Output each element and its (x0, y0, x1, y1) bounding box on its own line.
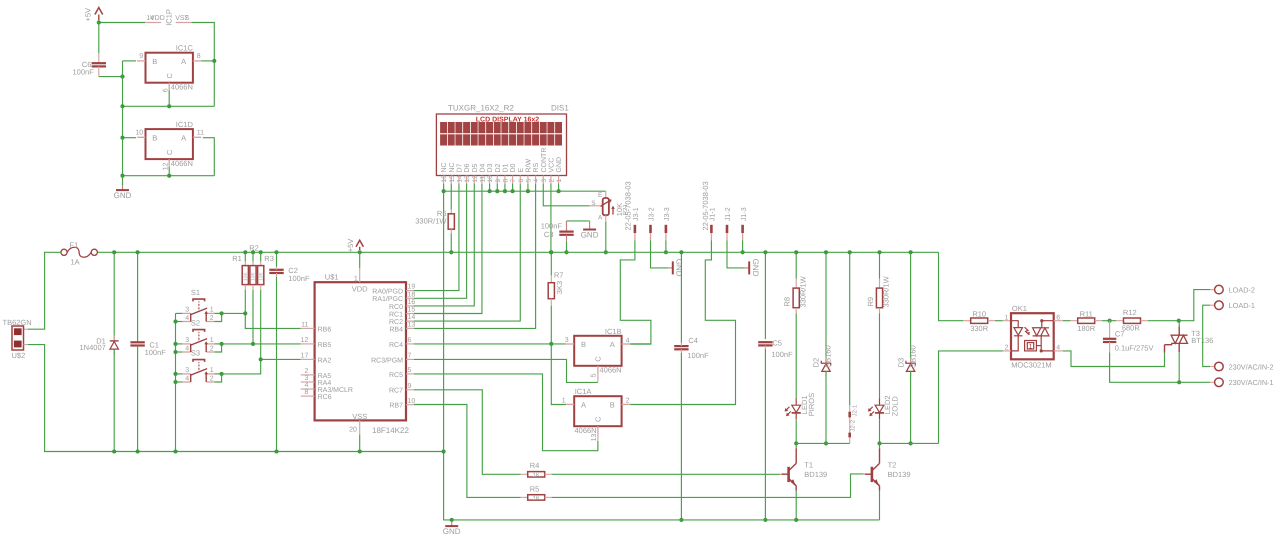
svg-text:9: 9 (408, 383, 412, 390)
junction D1 bottom rail (112, 449, 116, 453)
svg-text:GND: GND (443, 527, 461, 536)
wire RC4 node down to IC1A pin 1 (551, 344, 566, 405)
wire IC1D pin 11 down (203, 138, 214, 176)
svg-text:RB5: RB5 (318, 342, 332, 349)
gate IC1B 4066N (574, 336, 621, 366)
svg-text:TB62GN: TB62GN (3, 318, 32, 327)
wire R6 to +5V rail (450, 233, 452, 252)
U$1 pin 18 RA1/PGC (406, 297, 414, 299)
junction C1 bottom rail (136, 449, 140, 453)
svg-text:U$1: U$1 (325, 273, 339, 282)
svg-text:J1-3: J1-3 (741, 207, 748, 221)
svg-text:2: 2 (549, 179, 556, 183)
svg-text:14: 14 (408, 314, 416, 321)
resistor R1 10K (244, 252, 246, 261)
svg-text:16: 16 (408, 299, 416, 306)
svg-text:12: 12 (301, 337, 309, 344)
U$1 pin 7 RC3/PGM (406, 358, 414, 360)
wire LCD pin 1 to gnd rail (558, 184, 560, 192)
junction VCC rail (549, 250, 553, 254)
svg-text:4: 4 (626, 338, 630, 345)
svg-text:1A: 1A (71, 257, 80, 266)
junction J1-3 rail (741, 250, 745, 254)
U$1 pin 5 RC5 (406, 373, 414, 375)
wire T2 collector rail (880, 442, 939, 444)
svg-text:22-05-7038-03: 22-05-7038-03 (701, 181, 710, 230)
svg-text:J3-2: J3-2 (649, 207, 656, 221)
wire J3-2 to GND (651, 240, 669, 268)
svg-text:RB4: RB4 (389, 326, 403, 333)
svg-text:5: 5 (590, 373, 597, 377)
svg-text:180R: 180R (1077, 324, 1096, 333)
wire VCC column to +5V rail (550, 184, 552, 253)
junction VSS bottom rail (358, 449, 362, 453)
junction C2 bottom rail (274, 449, 278, 453)
wire S2 output to RB5 (222, 343, 301, 345)
svg-text:7: 7 (408, 353, 412, 360)
wire VSS to right vertical (192, 23, 215, 107)
svg-text:18: 18 (408, 291, 416, 298)
wire OK1 pin 2 return to T2 rail (1003, 350, 1011, 352)
svg-text:10K: 10K (243, 271, 249, 281)
junction +5V U$1 (358, 250, 362, 254)
svg-text:2: 2 (304, 368, 308, 375)
svg-text:CONTR: CONTR (541, 148, 548, 173)
junction left rail 1 (120, 104, 124, 108)
svg-text:VCC: VCC (549, 158, 556, 173)
svg-text:T1: T1 (804, 461, 813, 470)
wire TB62GN bottom to bottom rail (24, 344, 29, 346)
svg-text:0.1uF/275V: 0.1uF/275V (1115, 343, 1154, 352)
junction D1 rail (112, 250, 116, 254)
wire OK1 pin 6 to R11 (1054, 320, 1063, 322)
U$1 pin 19 RA0/PGD (406, 290, 414, 292)
svg-text:VDD: VDD (150, 15, 165, 22)
svg-text:330R/1W: 330R/1W (415, 216, 447, 225)
capacitor C3 100nF (566, 221, 568, 232)
svg-text:RA5: RA5 (318, 373, 332, 380)
wire +5V rail (97, 251, 938, 253)
wire T2 collector (879, 443, 881, 448)
svg-text:GND: GND (581, 231, 599, 240)
junction R7/RC4/IC1A (549, 342, 553, 346)
svg-text:100nF: 100nF (145, 348, 167, 357)
junction R1/S1 (243, 311, 247, 315)
svg-text:R7: R7 (554, 270, 564, 279)
svg-text:J1-2: J1-2 (725, 207, 732, 221)
junction trimmer rail (604, 250, 608, 254)
wire LCD GND rail (444, 190, 606, 192)
svg-text:RC5: RC5 (389, 372, 403, 379)
junction pin8/right rail (212, 59, 216, 63)
svg-text:RA4: RA4 (318, 380, 332, 387)
svg-text:GND: GND (556, 157, 563, 173)
svg-text:230V/AC/IN-1: 230V/AC/IN-1 (1229, 378, 1274, 387)
svg-text:J2-1: J2-1 (851, 404, 858, 416)
svg-text:12: 12 (472, 175, 479, 183)
junction pin16 gnd rail (442, 189, 446, 193)
wire T2 emitter to gnd line (879, 491, 881, 520)
svg-text:3: 3 (565, 337, 569, 344)
svg-text:RA0/PGD: RA0/PGD (372, 288, 403, 296)
junction pin5 gnd rail (526, 189, 530, 193)
wire fuse to TB62GN top (28, 252, 61, 329)
power part IC1P pin 14 VDD (145, 22, 161, 24)
U$1 pin 2 RA5 (301, 374, 315, 376)
svg-text:D4: D4 (480, 163, 487, 172)
wire J3-3 to rail (665, 240, 667, 252)
junction R2/S2 (251, 342, 255, 346)
wire RC4 to IC1B pin 3 (414, 343, 566, 345)
wire R10 to OK1 pin 1 (995, 320, 1003, 322)
svg-text:8: 8 (304, 389, 308, 396)
U$1 pin 6 RC4 (406, 343, 414, 345)
svg-text:3: 3 (304, 375, 308, 382)
wire +5V down to C6 (98, 23, 100, 54)
U$1 pin 9 RC7 (406, 389, 414, 391)
svg-text:100nF: 100nF (687, 351, 709, 360)
U$1 pin 11 RB6 (301, 327, 315, 329)
svg-text:D6: D6 (464, 163, 471, 172)
svg-text:13: 13 (408, 322, 416, 329)
wire T2 base stub (864, 473, 865, 475)
svg-text:330R: 330R (970, 324, 989, 333)
svg-text:5: 5 (408, 367, 412, 374)
svg-text:3K3: 3K3 (555, 281, 564, 294)
wire C6 bottom to node (99, 76, 123, 78)
svg-text:E: E (518, 168, 525, 173)
svg-text:R12: R12 (1123, 308, 1137, 317)
svg-text:J2-2: J2-2 (849, 419, 856, 431)
terminal block U$2 TB62GN (12, 326, 24, 350)
wire T1 collector (795, 443, 797, 448)
wire LCD pin 5 to gnd rail (527, 184, 529, 192)
svg-text:1: 1 (210, 307, 214, 314)
wire IC1C pin 8 to right vertical (201, 60, 214, 62)
svg-text:D3: D3 (487, 163, 494, 172)
transistor T1 BD139 (787, 467, 790, 482)
svg-text:9: 9 (139, 53, 143, 60)
power part IC1P pin 7 VSS (176, 22, 192, 24)
LED LED2 ZOLD (879, 398, 881, 405)
svg-text:R11: R11 (1080, 309, 1093, 318)
svg-text:17: 17 (301, 353, 309, 360)
power +5V (top left) (95, 8, 103, 15)
wire R12 to MT2 node (1148, 320, 1179, 322)
capacitor C5 100nF (764, 252, 766, 339)
U$1 pin 17 RA2 (301, 358, 315, 360)
svg-text:A: A (581, 400, 586, 409)
wire J1-2 to GND (727, 240, 745, 268)
gate IC1A 4066N (574, 396, 621, 426)
svg-text:GND: GND (675, 259, 684, 277)
wire IC1C pin 6 down to rail (168, 91, 170, 107)
svg-text:2: 2 (210, 345, 214, 352)
svg-text:IC1P: IC1P (165, 9, 174, 26)
svg-text:16: 16 (441, 175, 448, 183)
LCD pixel blocks row 2 (440, 134, 447, 145)
svg-text:C: C (594, 356, 603, 361)
svg-text:1: 1 (562, 398, 566, 405)
wire +5V to IC1P VDD (98, 20, 100, 23)
wire node to IC1C pin 9 (123, 60, 137, 62)
resistor R11 180R (1070, 320, 1077, 322)
svg-text:12: 12 (162, 162, 169, 170)
svg-text:15: 15 (449, 175, 456, 183)
svg-text:3: 3 (541, 179, 548, 183)
junction common bottom rail (173, 449, 177, 453)
wire LCD pin 8 to gnd rail (504, 184, 506, 192)
wire J3-1 to IC1B pin 4 (620, 240, 651, 344)
svg-text:11: 11 (301, 322, 308, 329)
wire S1 output to RB6 (222, 312, 246, 314)
svg-text:LOAD-2: LOAD-2 (1229, 286, 1255, 295)
wire RC5 to IC1A pin 13 (control) (414, 374, 598, 451)
junction S2 pin3 (173, 342, 177, 346)
svg-text:330R/1W: 330R/1W (798, 275, 807, 307)
wire LCD RS column to MCU (414, 184, 536, 329)
wire pin15 to R6 (450, 184, 452, 210)
svg-text:RC1: RC1 (389, 311, 403, 318)
svg-text:13: 13 (464, 175, 471, 183)
wire S3 output to RA2 (222, 359, 261, 374)
junction +5V node (97, 20, 101, 24)
svg-text:3: 3 (185, 367, 189, 374)
svg-text:B: B (581, 340, 586, 349)
junction R12/T3/LOAD-2 (1177, 319, 1181, 323)
svg-text:18F14K22: 18F14K22 (372, 426, 409, 435)
wire LCD D6 column to MCU (414, 184, 467, 299)
svg-text:D2: D2 (812, 358, 821, 368)
resistor R10 330R (963, 320, 970, 322)
svg-text:9: 9 (495, 179, 502, 183)
junction D2 rail (824, 250, 828, 254)
wire rail under IC1C (123, 105, 215, 107)
svg-text:6: 6 (408, 337, 412, 344)
wire VSS pin 20 (359, 420, 361, 434)
wire LCD D4 column to MCU (414, 184, 482, 314)
svg-text:LOAD-1: LOAD-1 (1229, 301, 1255, 310)
resistor R9 330R/1W (879, 252, 881, 278)
diode D2 SB160 (825, 252, 827, 362)
wire LCD pin 9 to gnd rail (496, 184, 498, 192)
svg-text:GND: GND (751, 259, 760, 277)
svg-text:J3-1: J3-1 (633, 207, 640, 221)
capacitor C4 100nF (680, 252, 682, 343)
svg-text:4: 4 (185, 345, 189, 352)
svg-text:IC1D: IC1D (176, 120, 194, 129)
svg-text:7: 7 (184, 15, 188, 22)
svg-text:R4: R4 (530, 461, 540, 470)
svg-text:RA3/MCLR: RA3/MCLR (318, 386, 353, 394)
resistor R7 3K3 (550, 252, 552, 275)
junction S3 output (220, 372, 224, 376)
svg-text:PIROS: PIROS (807, 393, 816, 416)
svg-text:6: 6 (518, 179, 525, 183)
wire C3 top to GND (567, 220, 590, 222)
svg-text:4: 4 (185, 375, 189, 382)
resistor R8 330R/1W (795, 252, 797, 278)
junction pin7 gnd rail (511, 189, 515, 193)
transistor T2 BD139 (871, 467, 874, 482)
svg-text:C5: C5 (772, 339, 782, 348)
wire gnd rail to trimmer E (605, 191, 607, 198)
junction R11/R12/C7 (1108, 319, 1112, 323)
wire J1-1 to IC1A pin 2 (630, 240, 735, 404)
connector pin J3-2 (649, 225, 652, 233)
wire LCD pin 10 to gnd rail (489, 184, 491, 192)
junction R8 rail (794, 250, 798, 254)
junction pin10 gnd rail (488, 189, 492, 193)
svg-text:1: 1 (1029, 344, 1033, 351)
wire trimmer A to rail (605, 215, 607, 221)
svg-text:S3: S3 (191, 349, 200, 358)
svg-text:A: A (598, 215, 603, 222)
svg-text:NC: NC (449, 162, 456, 172)
wire J1-3 to rail (742, 240, 744, 252)
svg-text:RC6: RC6 (318, 394, 332, 401)
svg-text:4066N: 4066N (171, 83, 193, 92)
svg-text:+5V: +5V (83, 8, 92, 22)
capacitor C1 100nF (137, 252, 139, 342)
svg-text:4066N: 4066N (171, 159, 193, 168)
diode D3 SB160 (910, 252, 912, 362)
junction J2 rail (848, 250, 852, 254)
junction J3-3 rail (664, 250, 668, 254)
svg-text:1K: 1K (533, 472, 540, 479)
ground GND (J1-2) (745, 267, 750, 269)
ground GND (C3) (589, 225, 591, 230)
wire MT1 to IN-1 (1179, 381, 1210, 383)
svg-text:S2: S2 (191, 319, 200, 328)
connector pin J1-3 (741, 225, 744, 233)
wire LED2 to T2 collector rail (879, 419, 881, 443)
wires S2 left pins (176, 343, 183, 345)
svg-text:GND: GND (114, 191, 132, 200)
svg-text:IC1A: IC1A (575, 387, 592, 396)
terminal LOAD-2 (1210, 289, 1214, 291)
svg-text:A: A (181, 133, 186, 142)
svg-text:3: 3 (185, 337, 189, 344)
wire LCD D7 column to MCU (414, 184, 459, 291)
svg-text:14: 14 (457, 175, 464, 183)
wire switch common vertical (175, 313, 177, 451)
svg-text:1: 1 (210, 337, 214, 344)
svg-text:2: 2 (210, 315, 214, 322)
resistor R5 1K (521, 496, 528, 498)
junction C1 rail (136, 250, 140, 254)
svg-text:8: 8 (503, 179, 510, 183)
resistor R3 10K (260, 252, 262, 261)
svg-text:ZOLD: ZOLD (890, 396, 899, 417)
U$1 pin 8 RC6 (301, 395, 315, 397)
svg-text:20: 20 (349, 426, 357, 433)
wire R9 to LED2 (879, 313, 881, 398)
ground GND (top-left) (122, 186, 124, 191)
svg-text:R9: R9 (866, 297, 875, 307)
junction R6 rail (449, 250, 453, 254)
svg-text:R3: R3 (264, 254, 274, 263)
svg-text:DIS1: DIS1 (551, 103, 569, 112)
junction D3 T2-rail (909, 441, 913, 445)
junction LED2/T2 rail (877, 441, 881, 445)
junction R9 rail (877, 250, 881, 254)
ground GND (center bottom) (451, 520, 453, 522)
svg-text:B: B (152, 57, 157, 66)
wires S3 left pins (176, 373, 183, 375)
ground GND (J3-2) (668, 267, 673, 269)
junction C3 rail (564, 250, 568, 254)
U$1 pin 3 RA4 (301, 381, 315, 383)
svg-text:F1: F1 (70, 240, 79, 249)
svg-text:1K: 1K (533, 495, 540, 502)
svg-text:S1: S1 (191, 288, 200, 297)
trimmer R21 10K (603, 198, 609, 215)
svg-text:230V/AC/IN-2: 230V/AC/IN-2 (1229, 362, 1274, 371)
wire T1 emitter to gnd line (795, 491, 797, 520)
wire LCD D5 column to MCU (414, 184, 474, 306)
U$1 pin 13 RB4 (406, 327, 414, 329)
svg-text:VSS: VSS (352, 412, 367, 421)
svg-text:C: C (165, 73, 174, 78)
junction left rail 2 (120, 174, 124, 178)
terminal 230V/AC/IN-1 (1210, 381, 1214, 383)
wire C3 bottom to rail (566, 242, 568, 252)
wire RC7 to R4 (414, 390, 521, 475)
svg-text:RA1/PGC: RA1/PGC (372, 295, 403, 303)
svg-text:D3: D3 (896, 358, 905, 368)
svg-text:6: 6 (162, 88, 169, 92)
connector J2 pins (849, 252, 851, 405)
svg-text:R10: R10 (972, 309, 986, 318)
wire LED1 to T1 collector rail (795, 419, 797, 443)
svg-text:RS: RS (533, 162, 540, 172)
svg-text:J3-3: J3-3 (664, 207, 671, 221)
svg-text:IC1C: IC1C (176, 44, 194, 53)
svg-text:1: 1 (556, 179, 563, 183)
wiper wire (590, 205, 601, 207)
svg-text:1: 1 (354, 275, 358, 282)
gate IC1C 4066N (146, 53, 193, 83)
svg-text:B: B (152, 133, 157, 142)
junction pin1 gnd rail (557, 189, 561, 193)
wire pin16 column down to bottom rail (443, 184, 445, 452)
wire R11 to snubber node (1102, 320, 1110, 322)
junction D2 T1-rail (824, 441, 828, 445)
junction pin10 node (120, 136, 124, 140)
svg-text:RB7: RB7 (389, 403, 403, 410)
wires S1 right pins (215, 312, 222, 314)
svg-text:7: 7 (510, 179, 517, 183)
terminal LOAD-1 (1210, 304, 1214, 306)
svg-text:100nF: 100nF (288, 274, 310, 283)
svg-text:BD139: BD139 (888, 470, 911, 479)
svg-text:5: 5 (526, 179, 533, 183)
wire MT2 to LOAD-2 (1179, 290, 1210, 321)
wire LCD pin 7 to gnd rail (512, 184, 514, 192)
svg-text:E: E (598, 192, 603, 199)
svg-text:22-05-7038-03: 22-05-7038-03 (623, 181, 632, 230)
wire T3 MT2 (1178, 321, 1180, 327)
svg-text:U$2: U$2 (12, 351, 26, 360)
svg-text:D0: D0 (510, 163, 517, 172)
wire RC3/PGM to IC1B pin 5 (414, 359, 598, 382)
U$1 pin 4 RA3/MCLR (301, 388, 315, 390)
junction C4 rail (679, 250, 683, 254)
svg-text:1: 1 (1005, 314, 1009, 321)
junction T1 emitter gnd (794, 518, 798, 522)
svg-text:4: 4 (1056, 344, 1060, 351)
